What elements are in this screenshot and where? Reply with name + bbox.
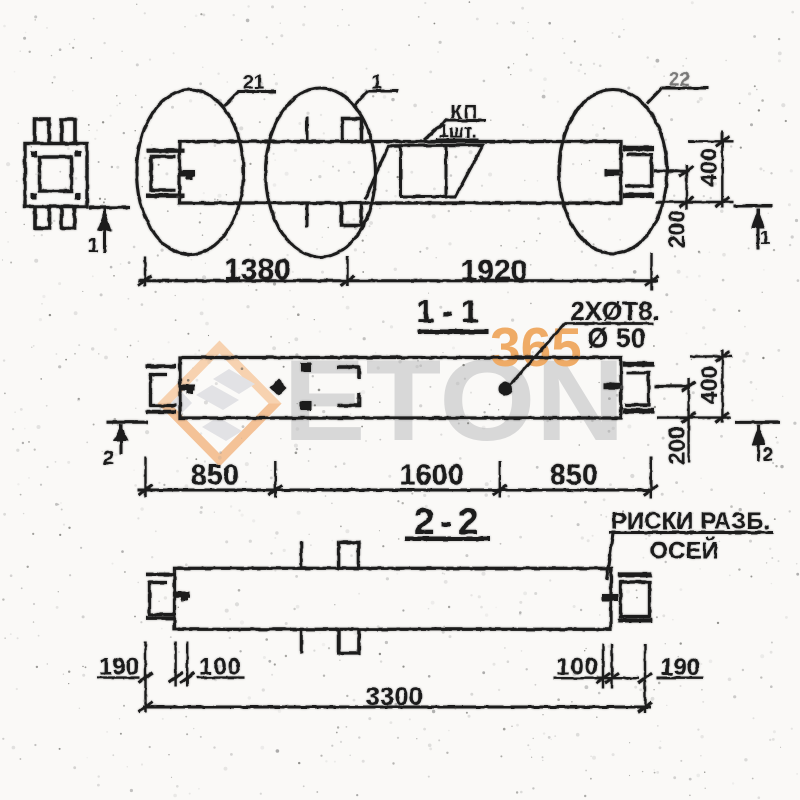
left end bottom bar: [146, 194, 185, 198]
dim 200: [687, 378, 689, 463]
dim row 1-1: [137, 489, 651, 492]
right end top bar: [623, 146, 654, 151]
stirrup bracket bottom: [337, 393, 359, 406]
svg-text:1600: 1600: [399, 460, 464, 492]
column inner square: [40, 157, 72, 191]
right end inner bracket: [625, 373, 649, 405]
beam bottom extension line: [657, 201, 734, 203]
section mark 1 arrow (left): [103, 209, 106, 253]
right end bottom bar: [623, 193, 654, 198]
section mark 2 left: [107, 421, 149, 424]
beam body 1-1: [180, 358, 621, 419]
section mark 1 line (left): [89, 206, 130, 209]
svg-text:2: 2: [763, 445, 774, 466]
tab lower square: [342, 203, 362, 226]
left end anchor tick: [180, 170, 195, 177]
svg-text:ОСЕЙ: ОСЕЙ: [649, 537, 718, 565]
beam bottom ext: [657, 416, 731, 418]
svg-text:РИСКИ РАЗБ.: РИСКИ РАЗБ.: [611, 508, 770, 535]
section mark 2 right: [735, 421, 781, 424]
diamond rivet: [270, 379, 287, 396]
stirrup bracket top: [337, 367, 359, 379]
top tab square: [339, 542, 359, 568]
svg-text:1-1: 1-1: [416, 294, 486, 330]
right end square: [621, 582, 650, 617]
leader 22: [647, 88, 662, 104]
beam body: [180, 142, 622, 204]
svg-text:365: 365: [490, 316, 582, 378]
bottom tab left: [35, 207, 50, 229]
embedded plate parallelogram: [365, 145, 483, 200]
dim 400 vertical line: [721, 131, 723, 208]
notch right: [602, 594, 619, 601]
svg-text:200: 200: [663, 426, 689, 464]
bottom tab square: [339, 629, 359, 653]
svg-text:1380: 1380: [224, 254, 291, 287]
tab mark upper line: [306, 117, 309, 142]
svg-text:2-2: 2-2: [414, 501, 484, 542]
small square mark top: [301, 363, 311, 372]
ext lines left: [144, 642, 146, 713]
corner bar dot TL: [31, 151, 37, 157]
right end inner bracket: [625, 155, 652, 186]
corner bar dot BR: [75, 194, 81, 200]
bottom tab line: [300, 629, 303, 653]
svg-text:1: 1: [760, 228, 771, 249]
bottom tab right: [62, 207, 75, 229]
dim 400: [721, 350, 723, 423]
left end top bar: [146, 364, 176, 368]
svg-text:3300: 3300: [366, 683, 424, 711]
leader to beam corner: [607, 533, 614, 580]
svg-text:1: 1: [87, 235, 98, 257]
svg-text:850: 850: [550, 460, 598, 492]
svg-text:400: 400: [696, 148, 722, 186]
dim 200 label (rotated): [664, 210, 690, 248]
leader 21: [224, 92, 238, 106]
right end anchor tick: [605, 170, 622, 177]
leader arrow to hole: [508, 324, 565, 388]
detail ellipse 3: [559, 90, 667, 254]
svg-text:200: 200: [664, 210, 690, 248]
svg-text:1920: 1920: [461, 255, 528, 288]
left end bottom bar: [146, 616, 175, 620]
leader 1: [354, 91, 368, 106]
svg-text:Ø 50: Ø 50: [587, 323, 646, 353]
right end top bar: [618, 572, 652, 577]
corner bar dot TR: [75, 151, 81, 157]
dim 200 vertical line: [685, 165, 687, 210]
svg-text:100: 100: [556, 654, 599, 681]
section mark 1 right line: [734, 205, 773, 208]
svg-text:850: 850: [191, 460, 239, 492]
svg-text:400: 400: [696, 366, 722, 404]
right end bottom bar: [618, 618, 652, 622]
top tab right: [62, 120, 76, 144]
left end bracket: [151, 375, 177, 406]
right end bottom bar: [623, 408, 654, 413]
svg-text:2: 2: [103, 448, 114, 470]
left end top bar: [146, 573, 175, 577]
watermark logo diamond: [158, 316, 626, 467]
svg-text:2ХØТ8.: 2ХØТ8.: [570, 296, 660, 326]
detail ellipse 2: [266, 88, 376, 257]
KP label leader: [424, 120, 447, 141]
right anchor tick: [604, 383, 620, 389]
left anchor tick: [175, 592, 190, 598]
left end bracket: [150, 583, 176, 615]
ext lines right: [602, 644, 604, 689]
left end bottom bar: [146, 410, 176, 414]
right end top bar: [623, 361, 654, 366]
top tab line: [300, 542, 303, 569]
top tab left: [35, 119, 50, 144]
corner bar dot BL: [31, 194, 37, 200]
left end bracket: [151, 157, 176, 191]
left end top bar: [147, 149, 185, 153]
left anchor tick: [180, 385, 195, 391]
small square mark bottom: [300, 401, 312, 411]
top dim row: [138, 279, 658, 282]
tab mark lower line: [306, 203, 309, 227]
column outer square: [25, 144, 87, 207]
detail ellipse 1: [137, 90, 244, 255]
beam body 2-2: [175, 568, 612, 629]
mid line to 200 dim: [654, 385, 690, 388]
mid line to 200 dim: [654, 170, 690, 173]
dim 3300: [143, 706, 651, 709]
tab upper square: [343, 119, 362, 142]
dim 400 label (rotated): [696, 148, 722, 186]
